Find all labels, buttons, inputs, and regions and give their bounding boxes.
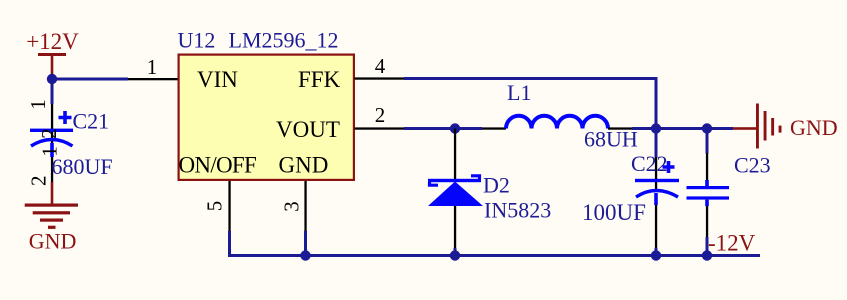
plus mark C22 — [663, 161, 675, 173]
svg-text:1: 1 — [147, 55, 158, 79]
node L1 output junction — [651, 123, 661, 133]
plate C21 bottom arc — [31, 140, 73, 147]
svg-text:+12V: +12V — [26, 29, 79, 54]
power +12V — [26, 29, 79, 76]
svg-text:100UF: 100UF — [582, 200, 646, 225]
pin 4 stub FFK — [355, 77, 405, 79]
svg-text:4: 4 — [375, 54, 386, 78]
svg-text:ON/OFF: ON/OFF — [179, 153, 257, 178]
capacitor C21 — [26, 79, 73, 186]
inductor L1 left pin — [482, 127, 506, 129]
plate C22 top — [635, 179, 679, 182]
op-amp U12 body — [179, 55, 354, 180]
capacitor C22 — [635, 129, 679, 257]
wire FFK vertical drop — [655, 77, 658, 130]
pin stub C22 bottom black — [655, 205, 657, 248]
node C23 bottom junction — [702, 250, 712, 260]
pin stub C23 top — [706, 153, 708, 181]
ground GND right — [733, 104, 838, 149]
svg-text:L1: L1 — [507, 80, 531, 105]
svg-text:LM2596_12: LM2596_12 — [229, 28, 339, 53]
wire junction to C21 — [51, 79, 54, 104]
pin 1 stub VIN — [128, 78, 179, 80]
plus mark C21 — [59, 111, 72, 124]
wire node to GND right — [707, 127, 733, 130]
capacitor C23 — [687, 129, 730, 257]
svg-text:VOUT: VOUT — [276, 117, 340, 142]
wire +12V to VIN — [52, 78, 128, 81]
node C22 bottom junction — [651, 250, 661, 260]
pin stub C23 bottom blue tip — [705, 200, 709, 207]
pin 2 stub VOUT — [355, 127, 405, 129]
pin stub C21 bottom black — [51, 157, 53, 182]
pin stub C21 bottom blue — [50, 143, 54, 157]
wire FFK horizontal — [404, 77, 658, 80]
wire node to C23 — [706, 129, 709, 154]
svg-text:IN5823: IN5823 — [484, 198, 551, 223]
inductor L1 right pin — [608, 127, 632, 129]
inductor L1 — [506, 116, 608, 129]
svg-text:2: 2 — [375, 103, 386, 127]
svg-text:U12: U12 — [178, 28, 216, 53]
node pin3 bottom junction — [300, 250, 310, 260]
svg-text:2: 2 — [37, 128, 61, 139]
svg-text:C22: C22 — [631, 151, 668, 176]
svg-text:3: 3 — [280, 201, 304, 212]
wire C23 to bottom rail — [706, 237, 709, 257]
svg-text:FFK: FFK — [298, 67, 341, 92]
ground GND left — [25, 182, 78, 253]
plate C22 bottom arc — [636, 191, 678, 198]
wire pin5 to bottom rail — [228, 231, 231, 257]
pin 5 stub ON/OFF — [228, 181, 230, 231]
node diode bottom junction — [450, 250, 460, 260]
pin stub C23 bottom — [706, 206, 708, 237]
svg-text:GND: GND — [29, 228, 77, 253]
pin stub C22 top — [655, 157, 657, 191]
wire C22 to bottom rail — [655, 248, 658, 257]
diode D2 schottky — [428, 176, 483, 206]
svg-text:2: 2 — [26, 175, 50, 186]
pin 3 stub GND — [304, 181, 306, 231]
wire pin3 to bottom rail — [304, 231, 307, 257]
wire bottom rail — [228, 254, 760, 257]
svg-text:D2: D2 — [483, 173, 510, 198]
wire L1 to node — [632, 127, 709, 130]
wire VOUT to L1 — [404, 127, 482, 130]
node C23 top junction — [702, 123, 712, 133]
pin stub C22 bottom blue — [654, 193, 658, 205]
svg-text:C23: C23 — [734, 153, 771, 178]
svg-text:5: 5 — [203, 201, 227, 212]
pin stub C21 top — [51, 104, 53, 146]
wire diode anode vertical — [454, 129, 456, 182]
plate C23 top — [687, 186, 730, 189]
plate C23 bottom — [687, 196, 730, 199]
node diode top junction — [450, 123, 460, 133]
svg-text:GND: GND — [279, 153, 329, 178]
pin stub C23 top blue tip — [705, 180, 709, 187]
svg-text:GND: GND — [790, 115, 838, 140]
svg-text:VIN: VIN — [197, 67, 238, 92]
svg-text:-12V: -12V — [708, 231, 756, 256]
svg-text:C21: C21 — [73, 109, 110, 134]
wire diode to bottom rail — [454, 248, 457, 257]
svg-text:68UH: 68UH — [584, 127, 638, 152]
node +12V junction — [47, 74, 57, 84]
svg-text:680UF: 680UF — [52, 154, 113, 179]
plate C21 top — [30, 129, 73, 132]
svg-text:1: 1 — [26, 99, 50, 110]
wire node to C22 — [655, 129, 658, 158]
wire diode cathode vertical — [454, 206, 456, 251]
